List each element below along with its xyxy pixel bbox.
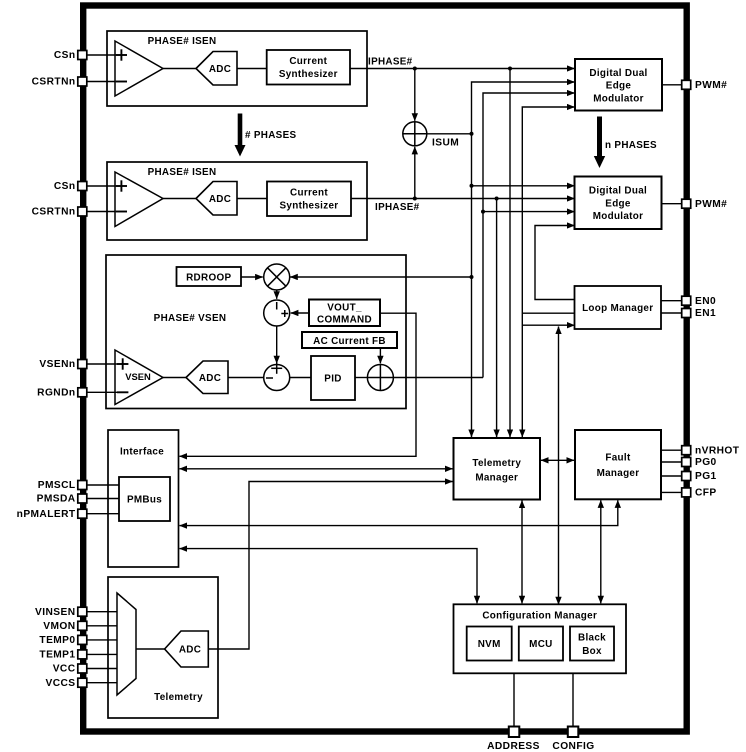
- svg-text:PHASE# ISEN: PHASE# ISEN: [148, 167, 217, 178]
- wire ADC3 to summer2: [228, 377, 264, 379]
- pin PMSDA: [78, 494, 87, 503]
- block Telemetry outline: [108, 577, 218, 718]
- minus input mark VSEN: [117, 391, 128, 393]
- svg-text:PID: PID: [324, 374, 341, 385]
- wire v2 branch to modulator2 input 1: [472, 185, 575, 187]
- summer1 circle: [264, 300, 290, 326]
- svg-text:Loop Manager: Loop Manager: [582, 303, 653, 314]
- wire modulator2 to PWM#2 pin: [662, 203, 682, 205]
- wire AC Current FB to adder: [379, 348, 381, 363]
- wire bus v4 from IPHASE#2 to Telemetry Manager: [496, 199, 498, 438]
- wire op-amp ISEN2 to ADC2: [163, 198, 196, 200]
- wire VMON pin to mux: [88, 625, 118, 627]
- svg-text:n PHASES: n PHASES: [605, 140, 657, 151]
- svg-text:CSRTNn: CSRTNn: [32, 77, 76, 88]
- block Digital Dual Edge Modulator 1: [575, 59, 662, 111]
- wire op-amp VSEN to ADC3: [163, 377, 186, 379]
- wire VCCS pin to mux: [88, 682, 118, 684]
- svg-text:ADC: ADC: [199, 373, 221, 384]
- label Current Synthesizer 2: [280, 188, 339, 212]
- pin RGNDn: [78, 388, 87, 397]
- block ISEN2 outline: [107, 162, 367, 240]
- svg-text:ADC: ADC: [209, 64, 231, 75]
- wire VINSEN pin to mux: [88, 611, 118, 613]
- wire Interface to Telemetry Manager (bidirectional): [180, 468, 453, 470]
- pin EN0: [682, 296, 691, 305]
- block Black Box: [570, 627, 614, 661]
- block ISEN1 outline: [107, 31, 367, 106]
- svg-text:EN1: EN1: [695, 308, 716, 319]
- op-amp ISEN2: [115, 172, 163, 227]
- wire TEMP0 pin to mux: [88, 639, 118, 641]
- svg-text:Current: Current: [290, 188, 328, 199]
- svg-text:PWM#: PWM#: [695, 199, 727, 210]
- wire Telemetry Manager to Fault Manager (bidirectional): [541, 459, 574, 461]
- pin nPMALERT: [78, 509, 87, 518]
- pin PMSCL: [78, 481, 87, 490]
- ADC3 pentagon: [186, 361, 228, 394]
- junction dot v3 branch DDEM2: [481, 210, 485, 214]
- block Configuration Manager: [454, 604, 627, 673]
- block AC Current FB: [302, 332, 397, 348]
- pin VSENn: [78, 360, 87, 369]
- svg-text:Current: Current: [289, 56, 327, 67]
- wire VOUT_COMMAND to Interface: [180, 313, 417, 456]
- thick arrow n PHASES: [594, 117, 605, 169]
- svg-text:PMSDA: PMSDA: [37, 494, 76, 505]
- svg-text:NVM: NVM: [478, 639, 501, 650]
- svg-text:VOUT_: VOUT_: [327, 303, 362, 314]
- svg-text:Edge: Edge: [606, 81, 632, 92]
- junction dot ISUM output on v2: [470, 132, 474, 136]
- wire TEMP1 pin to mux: [88, 653, 118, 655]
- svg-text:VCCS: VCCS: [46, 678, 76, 689]
- wire Configuration Manager to ADDRESS pin: [513, 673, 515, 727]
- wire bus v5 from IPHASE#1 to Telemetry Manager: [509, 69, 511, 438]
- wire bus v7 corner to modulator2 input 4: [535, 226, 575, 300]
- wire ADC1 to Current Synthesizer 1: [237, 68, 267, 70]
- wire bus v2 corner to modulator1 input 2: [472, 82, 575, 437]
- pin ADDRESS: [509, 727, 520, 738]
- pin CSRTNn1: [78, 77, 87, 86]
- svg-text:PHASE# VSEN: PHASE# VSEN: [154, 313, 227, 324]
- svg-text:CSn: CSn: [54, 50, 76, 61]
- label Black Box: [578, 633, 606, 658]
- svg-text:Telemetry: Telemetry: [472, 458, 521, 469]
- svg-text:Synthesizer: Synthesizer: [279, 69, 338, 80]
- svg-text:VSENn: VSENn: [39, 359, 75, 370]
- pin CONFIG: [568, 727, 579, 738]
- svg-text:PWM#: PWM#: [695, 80, 727, 91]
- wire op-amp ISEN1 to ADC1: [163, 68, 196, 70]
- svg-text:PG1: PG1: [695, 471, 717, 482]
- svg-text:ADC: ADC: [209, 194, 231, 205]
- wire Configuration Manager to CONFIG pin: [572, 673, 574, 727]
- telemetry ADC pentagon: [165, 631, 209, 667]
- wire Fault Manager to PG1 pin: [661, 475, 682, 477]
- wire ISUM input from IPHASE#2: [414, 147, 416, 199]
- ADC2 pentagon: [196, 182, 237, 216]
- svg-text:RDROOP: RDROOP: [186, 273, 231, 284]
- svg-text:Black: Black: [578, 633, 606, 644]
- svg-text:CONFIG: CONFIG: [552, 741, 594, 752]
- thick arrow # PHASES: [235, 114, 246, 157]
- block Interface: [108, 430, 179, 567]
- svg-text:nPMALERT: nPMALERT: [17, 509, 76, 520]
- svg-text:ISUM: ISUM: [432, 138, 459, 149]
- plus input mark VSEN: [117, 358, 128, 369]
- label VOUT_COMMAND: [317, 303, 372, 326]
- wire CSn1 pin to op-amp: [88, 54, 116, 56]
- label Current Synthesizer 1: [279, 56, 338, 80]
- svg-text:Digital Dual: Digital Dual: [589, 186, 647, 197]
- pin VMON: [78, 621, 87, 630]
- multiplier circle (droop): [264, 264, 290, 290]
- chip outer border: [83, 6, 687, 732]
- pin TEMP1: [78, 650, 87, 659]
- svg-text:PMSCL: PMSCL: [38, 480, 76, 491]
- op-amp ISEN1: [115, 41, 163, 96]
- label modulator 1: [589, 68, 647, 105]
- svg-text:CSRTNn: CSRTNn: [32, 207, 76, 218]
- wire nPMALERT pin to PMBus: [88, 513, 120, 515]
- junction dot v2 branch multiplier: [470, 275, 474, 279]
- wire RGNDn pin to op-amp: [88, 391, 118, 393]
- svg-text:Manager: Manager: [475, 473, 518, 484]
- plus input mark ISEN1: [116, 49, 127, 60]
- svg-text:Modulator: Modulator: [593, 211, 644, 222]
- svg-text:CSn: CSn: [54, 181, 76, 192]
- svg-text:Box: Box: [582, 646, 602, 657]
- wire v6 branch to Loop Manager line3: [522, 324, 574, 326]
- wire v6 branch to Loop Manager line2: [522, 312, 574, 314]
- minus input mark ISEN1: [116, 81, 127, 83]
- wire v3 branch to modulator2 input 3: [483, 211, 575, 213]
- junction dot IPHASE#2 / ISUM: [413, 197, 417, 201]
- wire PMSDA pin to PMBus: [88, 498, 120, 500]
- wire ISUM output to vertical bus v2: [427, 133, 472, 135]
- label Telemetry Manager: [472, 458, 521, 484]
- svg-text:TEMP1: TEMP1: [39, 650, 75, 661]
- wire VSENn pin to op-amp: [88, 363, 118, 365]
- svg-text:nVRHOT: nVRHOT: [695, 445, 740, 456]
- wire Fault Manager to Configuration Manager (bidirectional): [600, 500, 602, 603]
- mux trapezoid: [117, 593, 136, 695]
- wire CSn2 pin to op-amp: [88, 185, 116, 187]
- svg-text:EN0: EN0: [695, 296, 716, 307]
- block Fault Manager: [575, 430, 661, 499]
- wire VCC pin to mux: [88, 668, 118, 670]
- svg-text:Manager: Manager: [597, 468, 640, 479]
- svg-text:VSEN: VSEN: [125, 371, 151, 382]
- wire PID to adder: [355, 377, 367, 379]
- block NVM: [467, 627, 512, 661]
- junction dot IPHASE#1 / ISUM: [413, 67, 417, 71]
- pin CSn1: [78, 51, 87, 60]
- wire ISUM input from IPHASE#1: [414, 69, 416, 121]
- ADC1 pentagon: [196, 52, 237, 86]
- wire Interface to Configuration Manager (bidirectional): [180, 549, 478, 604]
- pin CSRTNn2: [78, 207, 87, 216]
- svg-text:COMMAND: COMMAND: [317, 315, 372, 326]
- wire bus v6 corner to modulator1 input 4: [522, 107, 574, 437]
- wire telemetry ADC to Telemetry Manager: [208, 482, 452, 650]
- ISUM summing circle: [403, 122, 427, 146]
- block PID: [311, 356, 355, 400]
- pin PG0: [682, 458, 691, 467]
- block Loop Manager: [575, 286, 662, 329]
- pin PWM#2: [682, 199, 691, 208]
- wire CSRTNn1 pin to op-amp: [88, 81, 116, 83]
- svg-text:Configuration Manager: Configuration Manager: [482, 610, 597, 621]
- adder circle (AC feedback): [367, 365, 393, 391]
- minus input mark ISEN2: [116, 211, 127, 213]
- wire Interface to Fault Manager bottom (bidirectional): [180, 500, 618, 525]
- wire multiplier to summer1: [276, 290, 278, 299]
- junction dot v5 on IPHASE#1: [508, 67, 512, 71]
- pin VINSEN: [78, 607, 87, 616]
- wire PMSCL pin to PMBus: [88, 484, 120, 486]
- svg-text:Synthesizer: Synthesizer: [280, 201, 339, 212]
- svg-text:IPHASE#: IPHASE#: [375, 202, 420, 213]
- svg-text:Interface: Interface: [120, 447, 164, 458]
- svg-text:PG0: PG0: [695, 457, 717, 468]
- svg-text:MCU: MCU: [529, 639, 552, 650]
- label Fault Manager: [597, 453, 640, 480]
- wire Fault Manager to nVRHOT pin: [661, 449, 682, 451]
- wire RDROOP to multiplier: [241, 276, 263, 278]
- wire CSRTNn2 pin to op-amp: [88, 211, 116, 213]
- wire summer2 to PID: [290, 377, 311, 379]
- pin VCCS: [78, 678, 87, 687]
- svg-text:ADDRESS: ADDRESS: [487, 741, 540, 752]
- wire v2 branch to multiplier: [290, 276, 471, 278]
- svg-text:RGNDn: RGNDn: [37, 388, 75, 399]
- wire ADC2 to Current Synthesizer 2: [237, 198, 267, 200]
- plus input mark ISEN2: [116, 180, 127, 191]
- svg-text:Telemetry: Telemetry: [154, 692, 203, 703]
- wire bus v3 corner to modulator1 input 3: [483, 93, 575, 378]
- svg-text:Modulator: Modulator: [593, 94, 644, 105]
- pin nVRHOT: [682, 446, 691, 455]
- block RDROOP: [177, 267, 242, 286]
- block Telemetry Manager: [454, 438, 541, 500]
- wire adder output to bus v3: [393, 377, 483, 379]
- block PHASE# VSEN outline: [106, 255, 406, 409]
- wire VOUT_COMMAND to summer1: [291, 312, 309, 314]
- svg-text:# PHASES: # PHASES: [245, 130, 296, 141]
- block VOUT_COMMAND: [309, 300, 380, 327]
- svg-text:Fault: Fault: [605, 453, 631, 464]
- op-amp VSEN: [115, 350, 163, 405]
- wire summer1 to summer2: [276, 326, 278, 363]
- svg-text:AC Current FB: AC Current FB: [313, 336, 386, 347]
- wire modulator1 to PWM#1 pin: [662, 84, 682, 86]
- pin CFP: [682, 488, 691, 497]
- svg-text:Edge: Edge: [605, 199, 631, 210]
- wire Loop Manager to EN0 pin: [661, 300, 682, 302]
- block Current Synthesizer 1: [267, 50, 350, 85]
- block Digital Dual Edge Modulator 2: [575, 177, 662, 230]
- svg-text:VCC: VCC: [53, 664, 76, 675]
- junction dot v2 branch DDEM2: [470, 184, 474, 188]
- svg-text:VINSEN: VINSEN: [35, 607, 75, 618]
- pin EN1: [682, 309, 691, 318]
- svg-text:CFP: CFP: [695, 488, 717, 499]
- block PMBus: [119, 477, 170, 521]
- svg-text:TEMP0: TEMP0: [39, 635, 75, 646]
- pin VCC: [78, 664, 87, 673]
- svg-text:ADC: ADC: [179, 645, 201, 656]
- svg-text:IPHASE#: IPHASE#: [368, 57, 413, 68]
- pin PG1: [682, 472, 691, 481]
- junction dot v4 on IPHASE#2: [495, 197, 499, 201]
- block Current Synthesizer 2: [267, 182, 351, 217]
- pin PWM#1: [682, 80, 691, 89]
- summer2 circle: [264, 363, 290, 391]
- svg-text:Digital Dual: Digital Dual: [589, 68, 647, 79]
- wire Loop Manager to EN1 pin: [661, 312, 682, 314]
- wire merge from below into Loop Manager line3: [558, 327, 560, 605]
- wire mux to telemetry ADC: [136, 648, 165, 650]
- label modulator 2: [589, 186, 647, 223]
- pin TEMP0: [78, 635, 87, 644]
- svg-text:PHASE# ISEN: PHASE# ISEN: [148, 36, 217, 47]
- wire Fault Manager to CFP pin: [661, 491, 682, 493]
- wire IPHASE#1 to modulator 1: [350, 68, 575, 70]
- svg-text:PMBus: PMBus: [127, 495, 162, 506]
- wire IPHASE#2 to modulator 2: [351, 198, 575, 200]
- block MCU: [519, 627, 563, 661]
- wire Fault Manager to PG0 pin: [661, 461, 682, 463]
- wire Telemetry Manager to Configuration Manager (bidirectional): [521, 501, 523, 604]
- svg-text:VMON: VMON: [43, 621, 75, 632]
- pin CSn2: [78, 182, 87, 191]
